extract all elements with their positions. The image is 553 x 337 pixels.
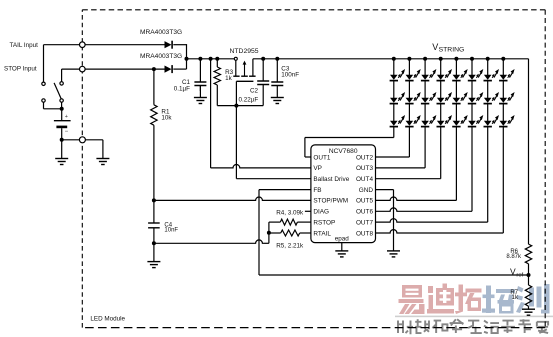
svg-text:8.87k: 8.87k xyxy=(506,254,522,260)
svg-text:OUT1: OUT1 xyxy=(313,154,330,161)
svg-text:V: V xyxy=(432,42,438,52)
svg-text:OUT7: OUT7 xyxy=(356,219,373,226)
svg-text:10nF: 10nF xyxy=(164,228,178,234)
svg-text:OUT4: OUT4 xyxy=(356,176,373,183)
svg-text:−: − xyxy=(65,129,69,135)
svg-text:GND: GND xyxy=(359,187,374,194)
svg-text:OUT2: OUT2 xyxy=(356,154,373,161)
svg-text:OUT5: OUT5 xyxy=(356,198,373,205)
svg-text:RSTOP: RSTOP xyxy=(313,219,335,226)
svg-text:C2: C2 xyxy=(250,88,259,95)
svg-text:+: + xyxy=(65,114,68,120)
svg-text:FB: FB xyxy=(313,187,321,194)
svg-text:LED Module: LED Module xyxy=(90,316,125,323)
svg-text:ref: ref xyxy=(516,272,523,278)
svg-text:0.1µF: 0.1µF xyxy=(174,86,190,93)
svg-text:DIAG: DIAG xyxy=(313,209,329,216)
svg-text:OUT6: OUT6 xyxy=(356,209,373,216)
svg-text:10k: 10k xyxy=(161,115,172,122)
svg-text:OUT8: OUT8 xyxy=(356,230,373,237)
svg-text:MRA4003T3G: MRA4003T3G xyxy=(140,53,182,60)
svg-text:epad: epad xyxy=(335,235,350,242)
svg-text:1k: 1k xyxy=(512,295,519,301)
svg-text:V: V xyxy=(510,266,516,276)
svg-text:R4, 3.09k: R4, 3.09k xyxy=(276,209,304,216)
svg-text:R5, 2.21k: R5, 2.21k xyxy=(276,243,304,250)
svg-text:OUT3: OUT3 xyxy=(356,165,373,172)
svg-text:STOP/PWM: STOP/PWM xyxy=(313,198,348,205)
svg-text:RTAIL: RTAIL xyxy=(313,230,331,237)
svg-text:STRING: STRING xyxy=(439,47,465,54)
svg-text:NCV7680: NCV7680 xyxy=(329,148,358,155)
svg-text:Ballast Drive: Ballast Drive xyxy=(313,176,349,183)
svg-text:VP: VP xyxy=(313,165,322,172)
svg-text:1k: 1k xyxy=(225,75,233,82)
svg-text:MRA4003T3G: MRA4003T3G xyxy=(140,29,182,36)
svg-text:0.22µF: 0.22µF xyxy=(239,96,259,103)
svg-text:NTD2955: NTD2955 xyxy=(230,48,259,55)
svg-text:STOP Input: STOP Input xyxy=(4,66,37,73)
svg-text:TAIL Input: TAIL Input xyxy=(10,42,39,49)
svg-text:100nF: 100nF xyxy=(281,72,299,79)
